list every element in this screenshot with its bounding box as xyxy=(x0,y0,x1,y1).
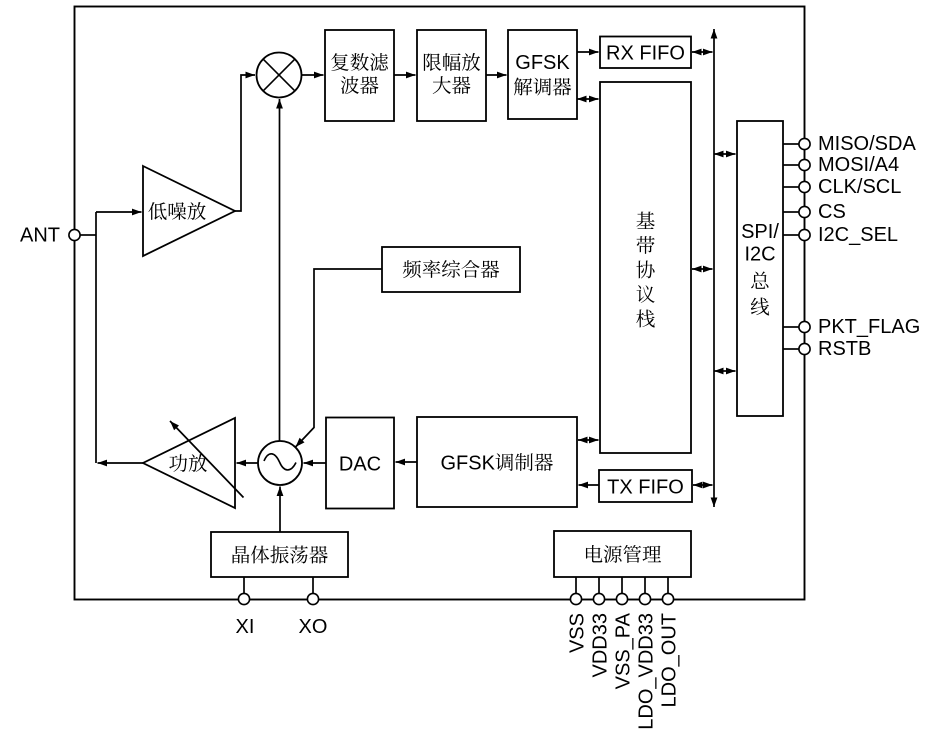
pin XO xyxy=(307,593,318,604)
svg-text:GFSK: GFSK xyxy=(515,52,570,74)
pin LDO_VDD33 xyxy=(639,593,650,604)
wire LDO_VDD33 stub xyxy=(644,577,646,594)
wire GFSK demod - baseband stack xyxy=(577,96,599,103)
label 解调器 xyxy=(514,78,571,96)
svg-text:SPI/: SPI/ xyxy=(741,221,779,243)
wire complex filter to limiter xyxy=(394,72,416,79)
wire RX FIFO - bus xyxy=(692,49,713,56)
wire ANT stub xyxy=(80,234,96,236)
wire baseband stack - bus xyxy=(692,266,713,273)
block DAC xyxy=(326,418,394,509)
block RX FIFO xyxy=(600,37,691,69)
label 线 xyxy=(751,298,769,316)
block GFSK modulator xyxy=(417,417,577,507)
label 限幅放 xyxy=(424,53,480,71)
svg-text:LDO_VDD33: LDO_VDD33 xyxy=(635,613,657,730)
block GFSK demodulator xyxy=(508,30,577,119)
wire XI stub xyxy=(243,577,245,594)
label 带 xyxy=(637,236,655,254)
block complex filter xyxy=(325,30,394,121)
label 总 xyxy=(751,271,768,288)
svg-text:DAC: DAC xyxy=(339,453,381,475)
label 电源管理 xyxy=(586,545,661,563)
svg-text:RX FIFO: RX FIFO xyxy=(606,42,685,64)
wire CS stub xyxy=(783,211,799,213)
wire VDD33 stub xyxy=(598,577,600,594)
svg-text:XI: XI xyxy=(236,616,255,638)
pin MOSI/A4 xyxy=(799,159,810,170)
LNA amplifier triangle xyxy=(143,166,235,256)
pin RSTB xyxy=(799,343,810,354)
wire CLK/SCL stub xyxy=(783,186,799,188)
bus vertical line xyxy=(711,29,718,507)
svg-text:LDO_OUT: LDO_OUT xyxy=(658,613,680,707)
oscillator xyxy=(258,441,302,485)
wire oscillator to mixer LO xyxy=(276,99,283,441)
PA amplifier triangle xyxy=(143,418,235,508)
wire bus - SPI lower xyxy=(714,368,736,375)
svg-text:CS: CS xyxy=(818,201,846,223)
pin LDO_OUT xyxy=(662,593,673,604)
wire LDO_OUT stub xyxy=(667,577,669,594)
label 基 xyxy=(637,212,655,229)
wire VSS stub xyxy=(575,577,577,594)
wire GFSK demod to RX FIFO xyxy=(577,49,599,56)
svg-text:TX FIFO: TX FIFO xyxy=(607,476,684,498)
wire VSS_PA stub xyxy=(621,577,623,594)
pin CS xyxy=(799,206,810,217)
pin I2C_SEL xyxy=(799,229,810,240)
svg-text:XO: XO xyxy=(299,616,328,638)
mixer xyxy=(257,53,302,98)
chip outline xyxy=(75,7,805,600)
wire bus - SPI upper xyxy=(714,151,736,158)
wire TX FIFO - bus xyxy=(693,482,713,489)
wire ANT vertical rail xyxy=(95,212,97,463)
label 频率综合器 xyxy=(403,260,499,278)
wire I2C_SEL stub xyxy=(783,234,799,236)
block TX FIFO xyxy=(599,470,692,502)
wire synthesizer to oscillator xyxy=(296,269,383,447)
pin PKT_FLAG xyxy=(799,321,810,332)
pin ANT xyxy=(69,229,80,240)
svg-text:I2C_SEL: I2C_SEL xyxy=(818,224,898,246)
wire GFSK mod to DAC xyxy=(396,459,418,466)
wire oscillator to PA xyxy=(237,460,259,467)
label 复数滤 xyxy=(331,53,388,71)
wire TX FIFO to GFSK mod xyxy=(579,482,600,489)
label 大器 xyxy=(433,76,471,94)
svg-text:I2C: I2C xyxy=(744,244,775,266)
wire limiter to GFSK demod xyxy=(486,72,507,79)
svg-text:MOSI/A4: MOSI/A4 xyxy=(818,154,899,176)
wire crystal osc to oscillator xyxy=(277,487,284,533)
svg-text:RSTB: RSTB xyxy=(818,338,871,360)
wire MISO/SDA stub xyxy=(783,143,799,145)
label PA 功放 xyxy=(169,454,207,472)
svg-text:PKT_FLAG: PKT_FLAG xyxy=(818,316,920,338)
pin VSS_PA xyxy=(616,593,627,604)
pin VDD33 xyxy=(593,593,604,604)
svg-text:VSS: VSS xyxy=(566,613,588,653)
pin VSS xyxy=(570,593,581,604)
pin XI xyxy=(238,593,249,604)
wire LNA output to mixer xyxy=(235,72,255,211)
wire DAC to oscillator xyxy=(304,460,327,467)
svg-text:MISO/SDA: MISO/SDA xyxy=(818,133,916,155)
block SPI/I2C bus xyxy=(737,121,783,416)
svg-text:ANT: ANT xyxy=(20,225,60,247)
wire XO stub xyxy=(312,577,314,594)
pin MISO/SDA xyxy=(799,138,810,149)
block limiting amplifier xyxy=(417,30,486,121)
label 调制器 xyxy=(495,453,552,471)
wire GFSK mod - baseband stack xyxy=(578,437,599,444)
block frequency synthesizer xyxy=(382,247,520,292)
label 波器 xyxy=(341,76,379,94)
wire PKT_FLAG stub xyxy=(783,326,799,328)
svg-text:GFSK: GFSK xyxy=(441,452,496,474)
svg-text:VDD33: VDD33 xyxy=(589,613,611,677)
label 协 xyxy=(636,261,654,279)
svg-text:VSS_PA: VSS_PA xyxy=(612,612,634,689)
label LNA 低噪放 xyxy=(148,202,205,220)
block power management xyxy=(554,531,691,577)
wire LNA input xyxy=(96,209,142,216)
label 晶体振荡器 xyxy=(233,546,328,564)
wire RSTB stub xyxy=(783,348,799,350)
block baseband protocol stack xyxy=(600,82,691,453)
label 议 xyxy=(637,285,655,303)
wire MOSI/A4 stub xyxy=(783,164,799,166)
pin CLK/SCL xyxy=(799,181,810,192)
label 栈 xyxy=(636,309,655,327)
wire mixer to complex filter xyxy=(302,72,324,79)
wire PA output xyxy=(98,460,144,467)
svg-text:CLK/SCL: CLK/SCL xyxy=(818,176,901,198)
block crystal oscillator xyxy=(211,532,348,577)
PA gain arrow xyxy=(170,421,244,498)
